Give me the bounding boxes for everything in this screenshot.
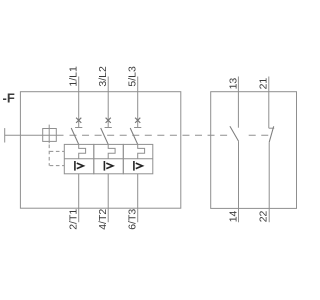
pole 1 terminal 1/L1 — [78, 77, 80, 128]
pole 1 trip-free cross X — [76, 118, 81, 123]
auxiliary contact block box — [211, 92, 297, 209]
pole 2 moving contact — [101, 128, 109, 144]
pole 2 release box — [94, 144, 124, 173]
svg-text:13: 13 — [227, 78, 239, 90]
pole 2 label 4/T2 — [97, 209, 109, 230]
aux NC contact hook 21 — [269, 127, 274, 129]
aux NO moving contact 13-14 — [230, 126, 239, 141]
pole 1 terminal 2/T1 — [78, 174, 80, 222]
pole 3 fixed contact bar — [134, 127, 141, 129]
pole 2 terminal 4/T2 — [107, 174, 109, 222]
pole 2 fixed contact bar — [105, 127, 112, 129]
svg-text:22: 22 — [258, 210, 270, 222]
svg-text:4/T2: 4/T2 — [97, 209, 109, 230]
operator mechanism square — [43, 125, 57, 144]
pole 3 terminal 6/T3 — [137, 174, 139, 222]
svg-text:21: 21 — [258, 78, 270, 90]
aux terminal 22 — [268, 142, 270, 222]
pole 1 magnetic release I> — [75, 161, 84, 171]
main breaker outline box — [20, 92, 180, 209]
aux label 21 — [258, 78, 270, 90]
pole 2 magnetic release I> — [104, 161, 113, 171]
pole 1 thermal overload release — [79, 144, 86, 158]
svg-text:-F: -F — [3, 91, 15, 106]
aux label 13 — [227, 78, 239, 90]
pole 1 label 2/T1 — [67, 209, 79, 230]
svg-text:5/L3: 5/L3 — [126, 66, 138, 87]
aux label 22 — [258, 210, 270, 222]
pole 2 thermal overload release — [108, 144, 115, 158]
pole 3 terminal 5/L3 — [137, 77, 139, 128]
pole 3 magnetic release I> — [134, 161, 143, 171]
pole 1 label 1/L1 — [67, 66, 79, 87]
aux terminal 13 — [237, 77, 239, 128]
pole 2 terminal 3/L2 — [107, 77, 109, 128]
pole 2 label 3/L2 — [97, 66, 109, 87]
trip linkage to releases (dashed) — [49, 145, 64, 166]
svg-text:3/L2: 3/L2 — [97, 66, 109, 87]
aux NC moving contact 21-22 — [269, 126, 274, 142]
pole 3 label 6/T3 — [126, 209, 138, 230]
svg-text:6/T3: 6/T3 — [126, 209, 138, 230]
pole 3 moving contact — [130, 128, 138, 144]
svg-text:2/T1: 2/T1 — [67, 209, 79, 230]
pole 1 fixed contact bar — [75, 127, 82, 129]
breaker designator -F — [3, 91, 15, 106]
pole 2 trip-free cross X — [106, 118, 111, 123]
aux terminal 21 — [268, 77, 270, 129]
aux label 14 — [228, 210, 240, 222]
svg-text:1/L1: 1/L1 — [67, 66, 79, 87]
pole 3 label 5/L3 — [126, 66, 138, 87]
pole 1 release box — [64, 144, 94, 173]
pole 3 trip-free cross X — [135, 118, 140, 123]
pole 1 moving contact — [71, 128, 79, 144]
manual operator handle — [5, 128, 64, 142]
pole 3 release box — [123, 144, 153, 173]
pole 3 thermal overload release — [138, 144, 145, 158]
svg-text:14: 14 — [228, 210, 240, 222]
aux terminal 14 — [238, 141, 240, 222]
main trip bar linkage (dashed) — [70, 134, 270, 136]
